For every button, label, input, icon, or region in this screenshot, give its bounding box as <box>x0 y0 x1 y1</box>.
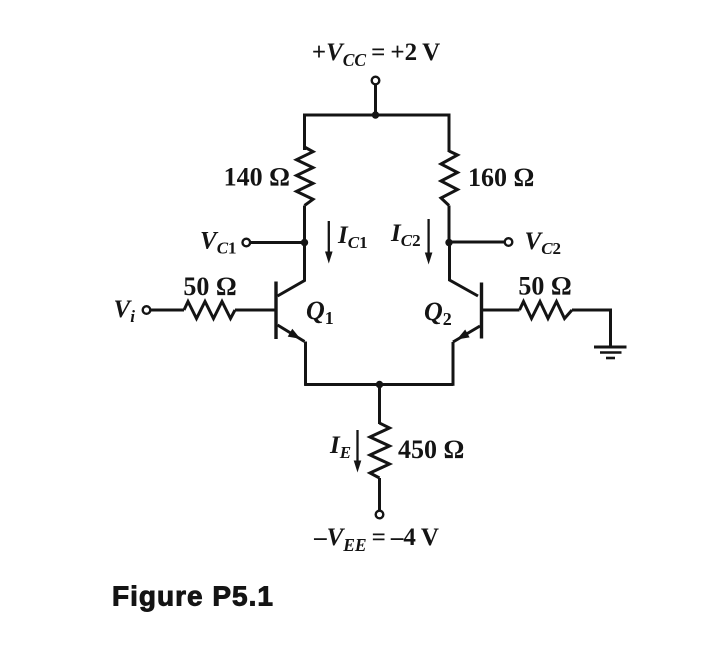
svg-text:50 Ω: 50 Ω <box>518 272 571 301</box>
svg-text:Figure P5.1: Figure P5.1 <box>112 581 274 612</box>
wire VC2 node to Q2 collector <box>450 243 479 297</box>
Q1 base bar <box>274 282 277 340</box>
wire 50 ohm to ground <box>572 310 611 347</box>
transistor Q1 <box>276 282 334 342</box>
current arrow IC1 <box>325 221 368 264</box>
label VC2 <box>525 228 562 258</box>
wire bottom rail <box>305 383 454 386</box>
resistor R4 50 ohm (right) <box>520 302 573 319</box>
resistor R3 50 ohm (left) <box>184 302 235 319</box>
Q2 emitter with arrow <box>453 326 480 342</box>
svg-text:–VEE = –4 V: –VEE = –4 V <box>313 524 439 555</box>
wire 140 ohm to VC1 node <box>303 206 306 244</box>
label Vi <box>114 296 136 326</box>
node emitter rail junction <box>376 381 383 388</box>
wire 450 ohm to VEE terminal <box>378 478 381 510</box>
current arrow IE <box>329 430 361 473</box>
svg-text:450 Ω: 450 Ω <box>398 435 464 464</box>
current arrow IC2 <box>390 219 432 265</box>
wire top rail <box>305 115 450 152</box>
resistor R5 450 ohm <box>370 423 390 478</box>
value label 140 ohm <box>224 163 290 192</box>
node VC1 junction <box>301 239 308 246</box>
wire 160 ohm to VC2 node <box>448 206 451 244</box>
resistor R1 140 ohm <box>297 147 314 206</box>
ground <box>594 347 627 358</box>
resistor R2 160 ohm <box>441 151 458 206</box>
supply label -VEE = -4 V <box>313 524 439 555</box>
svg-text:+VCC = +2 V: +VCC = +2 V <box>312 39 440 70</box>
value label 50 ohm left <box>183 272 236 301</box>
wire VC2 node to VC2 terminal <box>449 241 504 244</box>
wire Q2 emitter to bottom rail <box>452 342 455 386</box>
wire junction to 450 ohm <box>378 385 381 425</box>
Q2 base bar <box>480 283 483 339</box>
wire Q2 base to 50 ohm <box>482 309 520 312</box>
Q1 emitter with arrow <box>278 325 305 342</box>
wire 50 ohm to Q1 base <box>235 309 276 312</box>
wire VC1 node to VC1 terminal <box>251 241 305 244</box>
svg-text:140 Ω: 140 Ω <box>224 163 290 192</box>
terminal VEE (open circle) <box>376 511 384 519</box>
wire Vi terminal to 50 ohm <box>151 309 184 312</box>
transistor Q2 <box>424 283 482 343</box>
wire VC1 node to Q1 collector <box>278 243 305 297</box>
value label 160 ohm <box>468 163 534 192</box>
node top rail junction <box>372 111 379 118</box>
terminal VC1 (open circle) <box>243 239 251 247</box>
Q1 label <box>306 296 334 328</box>
terminal VC2 (open circle) <box>505 238 513 246</box>
Q2 label <box>424 297 452 329</box>
label VC1 <box>200 228 237 258</box>
wire VCC terminal to top rail <box>374 85 377 116</box>
value label 450 ohm <box>398 435 464 464</box>
terminal VCC (open circle) <box>372 77 380 85</box>
wire Q1 emitter to bottom rail <box>304 342 307 386</box>
value label 50 ohm right <box>518 272 571 301</box>
svg-text:160 Ω: 160 Ω <box>468 163 534 192</box>
supply label +VCC = +2 V <box>312 39 440 70</box>
svg-text:50 Ω: 50 Ω <box>183 272 236 301</box>
node VC2 junction <box>445 239 452 246</box>
terminal Vi (open circle) <box>143 306 151 314</box>
